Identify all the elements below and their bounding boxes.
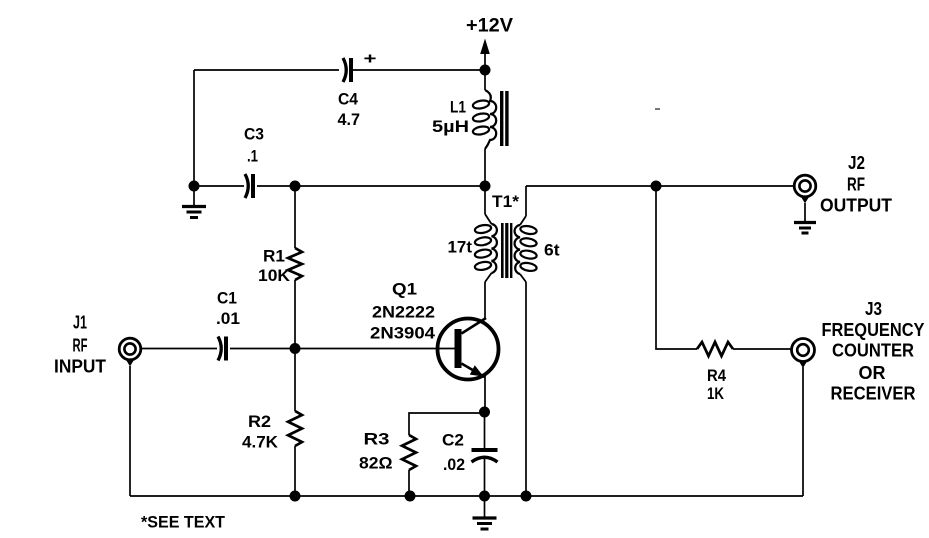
svg-text:.02: .02 [443, 455, 465, 474]
resistor R1 [288, 186, 302, 349]
wire J1 to C1 [141, 348, 217, 350]
wire secondary top to J2 [526, 185, 794, 187]
svg-text:R1: R1 [263, 247, 285, 266]
svg-text:COUNTER: COUNTER [832, 341, 914, 361]
svg-text:OR: OR [859, 363, 886, 383]
svg-text:J1: J1 [73, 313, 87, 333]
transformer T1 primary winding 17t [474, 186, 497, 318]
transformer T1 secondary winding 6t [515, 186, 538, 282]
wire mid rail left segment (ground node to C3) [194, 185, 244, 187]
svg-text:4.7: 4.7 [338, 110, 361, 129]
svg-text:J2: J2 [848, 153, 865, 173]
svg-text:2N2222: 2N2222 [372, 303, 435, 322]
svg-text:1K: 1K [707, 384, 725, 403]
resistor R4 [697, 342, 791, 356]
svg-text:*SEE TEXT: *SEE TEXT [141, 513, 226, 532]
wire output node to R4 [656, 186, 697, 349]
node bus R3 junction [405, 491, 416, 502]
power +12V arrow [480, 39, 490, 71]
wire top rail right segment (C4 right lead to +12V node) [352, 69, 485, 71]
svg-text:T1*: T1* [492, 192, 519, 211]
svg-text:6t: 6t [544, 241, 560, 260]
svg-text:C1: C1 [217, 289, 237, 308]
svg-text:2N3904: 2N3904 [370, 324, 436, 343]
node T1 primary top junction [480, 181, 491, 192]
node ground/C3 junction [189, 181, 200, 192]
node B (C3 / R1 top junction) [290, 181, 301, 192]
svg-text:R2: R2 [248, 412, 271, 431]
node bus C2 junction [479, 491, 490, 502]
transformer T1 core [501, 223, 512, 278]
scan speck [655, 108, 660, 110]
svg-text:RECEIVER: RECEIVER [831, 384, 916, 404]
svg-text:INPUT: INPUT [54, 357, 106, 377]
svg-text:OUTPUT: OUTPUT [820, 196, 892, 216]
svg-text:R4: R4 [707, 366, 726, 385]
wire top rail left segment (C4 left lead) [194, 69, 339, 71]
node +12V junction [480, 65, 491, 76]
svg-text:RF: RF [847, 175, 865, 195]
ground G1 (left, below mid rail) [182, 186, 206, 218]
node bus secondary junction [521, 491, 532, 502]
node base junction [290, 343, 301, 354]
wire Q1 emitter down [484, 377, 486, 412]
capacitor C3 [245, 174, 253, 198]
node bus R2 junction [290, 491, 301, 502]
inductor L1 [472, 70, 508, 186]
capacitor C4 [343, 58, 351, 82]
svg-text:.01: .01 [216, 309, 240, 328]
connector J1 [119, 338, 141, 366]
svg-text:.1: .1 [247, 147, 258, 166]
svg-text:FREQUENCY: FREQUENCY [822, 320, 925, 340]
svg-text:C2: C2 [442, 431, 464, 450]
node emitter junction [479, 407, 490, 418]
wire left vertical (top rail down to ground node) [193, 70, 195, 186]
svg-text:+: + [364, 51, 377, 68]
wire C1 to Q1 base [230, 348, 455, 350]
resistor R2 [288, 349, 302, 497]
wire secondary bottom to ground bus [525, 282, 527, 496]
resistor R3 [402, 435, 416, 496]
svg-text:C3: C3 [244, 125, 264, 144]
svg-text:C4: C4 [338, 90, 358, 109]
ground G2 (below J2) [794, 203, 816, 233]
svg-text:+12V: +12V [466, 16, 513, 37]
wire J3 drop to ground bus [802, 367, 804, 496]
wire emitter junction to R3 top [409, 413, 485, 435]
ground G3 (bottom centre) [473, 496, 497, 529]
wire ground bus [130, 495, 803, 497]
svg-text:RF: RF [73, 336, 88, 356]
svg-text:82Ω: 82Ω [359, 454, 393, 473]
svg-text:5µH: 5µH [432, 117, 469, 136]
svg-text:17t: 17t [448, 238, 473, 257]
svg-text:Q1: Q1 [392, 280, 417, 299]
transistor Q1 [438, 318, 499, 380]
connector J2 [794, 175, 816, 203]
svg-text:L1: L1 [450, 98, 466, 117]
node output junction (R4 tap) [651, 181, 662, 192]
connector J3 [792, 339, 815, 369]
capacitor C2 [472, 412, 498, 496]
wire J1 drop to ground bus [129, 366, 131, 496]
svg-text:4.7K: 4.7K [242, 433, 279, 452]
svg-text:10K: 10K [258, 266, 291, 285]
capacitor C1 [218, 337, 226, 361]
wire mid rail right segment (C3 to node B to T1 primary top) [257, 185, 485, 187]
svg-text:J3: J3 [865, 299, 882, 319]
svg-text:R3: R3 [364, 430, 390, 449]
